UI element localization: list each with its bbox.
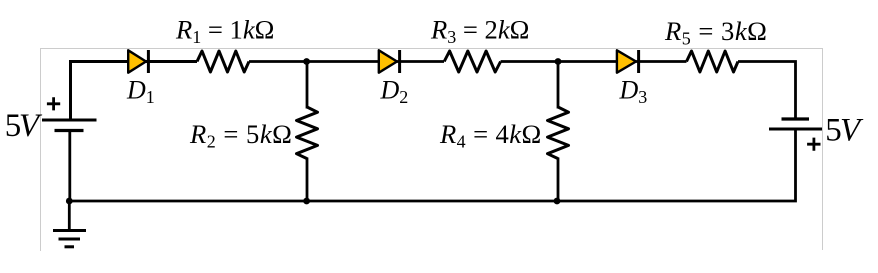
svg-text:R5 = 3kΩ: R5 = 3kΩ	[664, 16, 767, 49]
svg-text:R3 = 2kΩ: R3 = 2kΩ	[430, 15, 529, 48]
resistor R2	[297, 107, 318, 159]
wire battery V1 positive to diode D1 anode (top-left corner)	[71, 62, 198, 121]
wire node C to node D (bottom)	[307, 200, 558, 203]
diode D2	[379, 50, 400, 73]
wire R1 to node A	[249, 60, 307, 63]
node E junction (ground node, bottom-left)	[66, 198, 73, 205]
resistor R1	[197, 51, 249, 72]
wire node B to R5 (through diode D3)	[558, 60, 687, 63]
wire resistor R2 to node D	[306, 158, 309, 202]
node C junction (bottom of R4)	[554, 198, 561, 205]
wire node D to ground node	[69, 200, 307, 203]
diode D3	[617, 50, 639, 73]
svg-text:R4 = 4kΩ: R4 = 4kΩ	[439, 119, 542, 152]
label battery V2 polarity +	[807, 138, 820, 151]
wire R3 to node B	[501, 60, 558, 63]
resistor R3	[444, 51, 500, 72]
wire battery V1 negative to ground node	[68, 131, 71, 202]
svg-text:R1 = 1kΩ: R1 = 1kΩ	[175, 15, 274, 48]
node B junction (top of R4)	[555, 58, 562, 65]
resistor R5	[687, 51, 739, 72]
wire battery V2 negative to bottom-right corner	[558, 129, 796, 201]
resistor R4	[548, 107, 569, 159]
diode D1	[128, 50, 148, 73]
wire resistor R4 to node C	[557, 158, 560, 202]
wire node A to R3 (through diode D2)	[307, 60, 444, 63]
wire R5 to battery V2 (top-right corner)	[738, 62, 796, 120]
ground	[53, 231, 86, 247]
svg-text:R2 = 5kΩ: R2 = 5kΩ	[189, 119, 292, 152]
wire node A to resistor R2	[306, 62, 309, 109]
battery V1 (5V left, + at top)	[42, 120, 97, 131]
svg-text:5V: 5V	[825, 113, 864, 149]
wire node B to resistor R4	[557, 62, 560, 109]
node D junction (bottom of R2)	[303, 198, 310, 205]
label battery V1 polarity +	[47, 97, 60, 110]
battery V2 (5V right, + at bottom)	[769, 119, 822, 129]
wire ground node to ground symbol	[68, 201, 71, 231]
node A junction (top of R2)	[303, 58, 310, 65]
